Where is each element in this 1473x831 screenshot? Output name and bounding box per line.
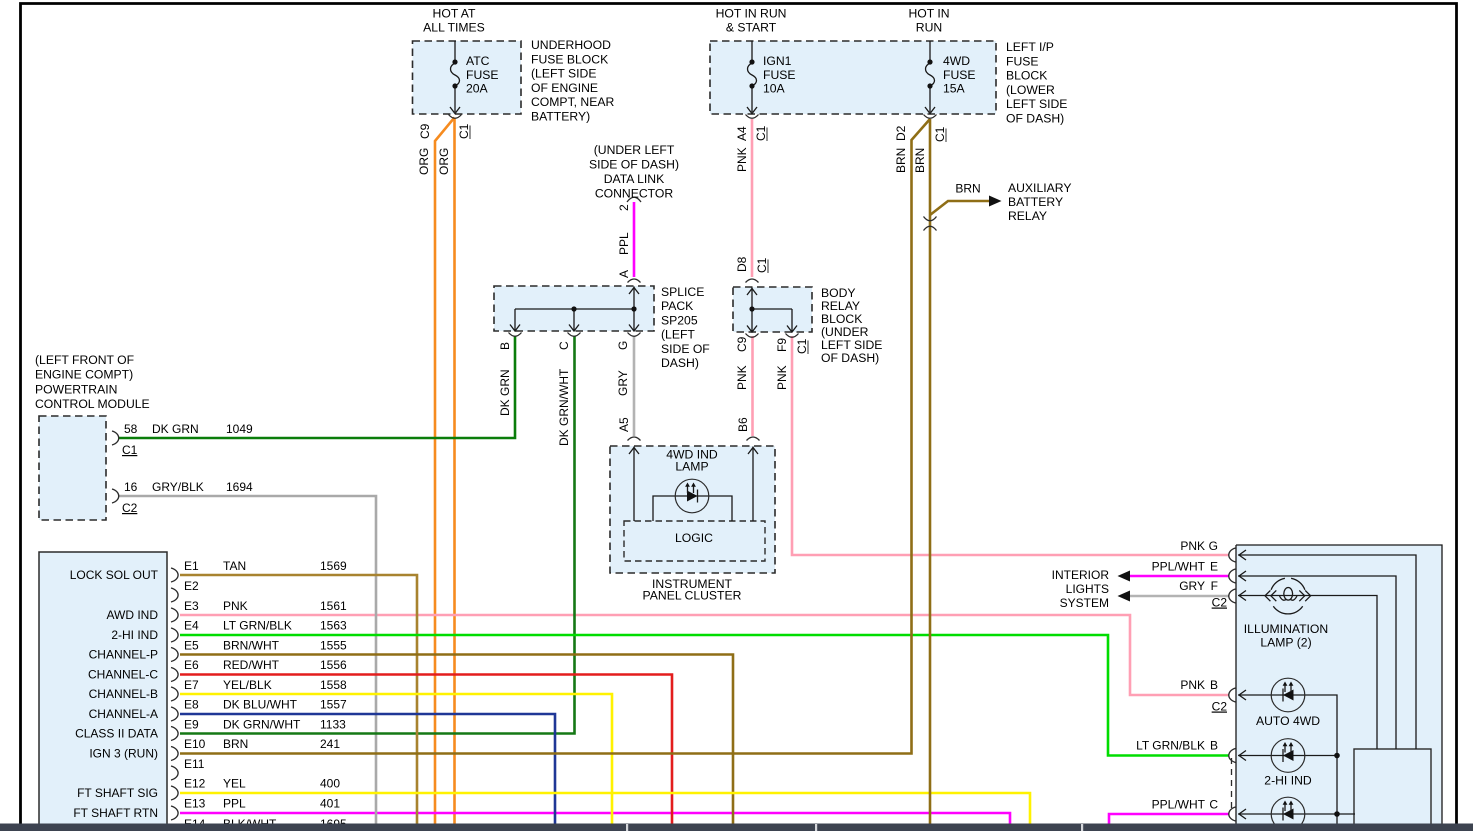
connector arc below IGN1 fuse xyxy=(746,115,759,119)
svg-text:C1: C1 xyxy=(754,125,768,141)
svg-text:E: E xyxy=(1210,560,1218,574)
svg-text:IGN 3 (RUN): IGN 3 (RUN) xyxy=(89,747,158,761)
svg-text:CLASS II DATA: CLASS II DATA xyxy=(75,727,158,741)
svg-text:CHANNEL-B: CHANNEL-B xyxy=(89,687,158,701)
svg-text:15A: 15A xyxy=(943,82,966,96)
svg-text:1556: 1556 xyxy=(320,658,347,672)
svg-text:CHANNEL-C: CHANNEL-C xyxy=(88,668,158,682)
wire BRN branch to auxiliary battery relay xyxy=(930,201,989,215)
svg-text:A: A xyxy=(617,270,631,278)
svg-text:ALL TIMES: ALL TIMES xyxy=(423,21,485,35)
splice pack SP205 xyxy=(494,286,654,331)
label auxiliary battery relay xyxy=(1008,181,1071,223)
label left I/P fuse block xyxy=(1006,40,1067,126)
svg-text:F: F xyxy=(1211,579,1218,593)
svg-text:E13: E13 xyxy=(184,797,206,811)
wire BRN D2 4WD fuse to E10 xyxy=(180,119,930,754)
wire DK GRN/WHT splice C to E9 xyxy=(180,336,575,734)
svg-text:58: 58 xyxy=(124,422,138,436)
svg-text:DK GRN: DK GRN xyxy=(152,422,199,436)
svg-text:LEFT I/P: LEFT I/P xyxy=(1006,40,1054,54)
svg-text:PPL/WHT: PPL/WHT xyxy=(1152,798,1206,812)
svg-text:C1: C1 xyxy=(795,338,809,354)
svg-text:E2: E2 xyxy=(184,579,199,593)
svg-text:CONNECTOR: CONNECTOR xyxy=(595,187,674,201)
svg-text:B: B xyxy=(1210,739,1218,753)
svg-text:(LEFT SIDE: (LEFT SIDE xyxy=(531,67,596,81)
svg-text:AUTO 4WD: AUTO 4WD xyxy=(1256,714,1320,728)
PCM E-connector box xyxy=(39,552,167,831)
svg-text:SP205: SP205 xyxy=(661,313,698,327)
svg-text:2-HI IND: 2-HI IND xyxy=(1264,774,1312,788)
svg-text:E7: E7 xyxy=(184,678,199,692)
svg-text:1558: 1558 xyxy=(320,678,347,692)
svg-text:1557: 1557 xyxy=(320,698,347,712)
left I/P fuse block xyxy=(710,41,996,114)
svg-text:C1: C1 xyxy=(933,126,947,142)
svg-text:D8: D8 xyxy=(735,256,749,272)
right module internal lines B / 2-HI / C and LED bus xyxy=(1238,690,1355,824)
svg-text:UNDERHOOD: UNDERHOOD xyxy=(531,38,611,52)
svg-text:401: 401 xyxy=(320,797,340,811)
powertrain control module box xyxy=(39,416,106,520)
svg-text:PNK: PNK xyxy=(775,365,789,390)
wire PPL/WHT pin E xyxy=(1130,575,1229,578)
svg-text:COMPT, NEAR: COMPT, NEAR xyxy=(531,95,614,109)
svg-text:DK BLU/WHT: DK BLU/WHT xyxy=(223,698,298,712)
svg-text:IGN1: IGN1 xyxy=(763,54,792,68)
svg-text:PNK: PNK xyxy=(1180,678,1205,692)
svg-text:BRN: BRN xyxy=(223,737,248,751)
E-connector left labels xyxy=(70,568,159,820)
E-connector pin rows xyxy=(184,559,347,831)
svg-text:CHANNEL-A: CHANNEL-A xyxy=(89,707,158,721)
svg-text:C: C xyxy=(1209,798,1218,812)
svg-text:BRN: BRN xyxy=(913,148,927,173)
fuse IGN1 10A xyxy=(747,41,757,114)
wire PNK C9 body relay to cluster B6 xyxy=(751,336,754,436)
svg-text:4WD: 4WD xyxy=(943,54,970,68)
cluster internal wiring xyxy=(629,447,758,522)
svg-text:YEL: YEL xyxy=(223,777,246,791)
svg-text:GRY: GRY xyxy=(1179,579,1205,593)
transfer case / right module box xyxy=(1232,545,1443,831)
svg-text:LT GRN/BLK: LT GRN/BLK xyxy=(1136,739,1205,753)
splice pack internal bus xyxy=(510,287,639,332)
pin 58 DK GRN 1049 xyxy=(122,422,253,457)
svg-text:16: 16 xyxy=(124,480,138,494)
wire PPL data link connector to splice A xyxy=(633,202,636,277)
svg-text:AWD IND: AWD IND xyxy=(106,608,158,622)
label body relay block xyxy=(821,286,882,365)
svg-text:(LOWER: (LOWER xyxy=(1006,83,1055,97)
svg-text:RUN: RUN xyxy=(916,21,942,35)
svg-text:SPLICE: SPLICE xyxy=(661,285,704,299)
interior lights system xyxy=(1052,568,1110,610)
label underhood fuse block xyxy=(531,38,614,124)
wire BRN C1 4WD fuse down xyxy=(929,119,932,824)
svg-text:1555: 1555 xyxy=(320,639,347,653)
svg-text:ORG: ORG xyxy=(437,148,451,175)
wire PPL E13 xyxy=(180,813,1010,824)
svg-text:BRN: BRN xyxy=(894,148,908,173)
svg-text:A5: A5 xyxy=(617,417,631,432)
4WD IND lamp LED xyxy=(675,479,709,513)
connector arc below ATC fuse xyxy=(449,115,462,119)
underhood fuse block xyxy=(413,41,522,114)
right module pin labels xyxy=(1136,539,1227,812)
solid arrow to auxiliary battery relay xyxy=(989,196,1002,207)
fuse ATC 20A xyxy=(450,41,460,114)
svg-text:SIDE OF: SIDE OF xyxy=(661,342,710,356)
wire YEL E12 xyxy=(180,793,1030,824)
svg-text:LIGHTS: LIGHTS xyxy=(1066,582,1109,596)
svg-text:(LEFT FRONT OF: (LEFT FRONT OF xyxy=(35,353,134,367)
wire ORG right branch C1 xyxy=(453,118,456,825)
svg-text:C9: C9 xyxy=(418,123,432,139)
pin 16 GRY/BLK 1694 xyxy=(122,480,253,515)
svg-text:FUSE: FUSE xyxy=(943,68,976,82)
svg-text:BRN/WHT: BRN/WHT xyxy=(223,639,280,653)
wire GRY splice G to cluster A5 xyxy=(633,336,636,436)
wire GRY pin F xyxy=(1130,595,1229,598)
svg-text:AUXILIARY: AUXILIARY xyxy=(1008,181,1071,195)
svg-text:C1: C1 xyxy=(457,123,471,139)
svg-text:E8: E8 xyxy=(184,698,199,712)
svg-text:E11: E11 xyxy=(184,757,205,771)
ROTATED LABELS xyxy=(417,123,947,446)
logic box xyxy=(624,521,765,561)
svg-text:B: B xyxy=(1210,678,1218,692)
svg-text:E6: E6 xyxy=(184,658,199,672)
inline connector break on BRN C1 wire xyxy=(924,217,937,231)
svg-text:GRY: GRY xyxy=(616,370,630,396)
svg-text:OF DASH): OF DASH) xyxy=(1006,112,1064,126)
svg-text:FUSE BLOCK: FUSE BLOCK xyxy=(531,52,608,66)
svg-text:B: B xyxy=(498,342,512,350)
svg-text:E5: E5 xyxy=(184,639,199,653)
svg-text:G: G xyxy=(1209,539,1218,553)
svg-text:HOT IN: HOT IN xyxy=(908,7,949,21)
svg-text:YEL/BLK: YEL/BLK xyxy=(223,678,272,692)
body relay exit arcs C9 F9 xyxy=(746,334,799,338)
svg-text:GRY/BLK: GRY/BLK xyxy=(152,480,204,494)
svg-text:E12: E12 xyxy=(184,777,206,791)
svg-text:E9: E9 xyxy=(184,718,199,732)
svg-text:SIDE OF DASH): SIDE OF DASH) xyxy=(589,158,679,172)
svg-text:1049: 1049 xyxy=(226,422,253,436)
svg-text:1569: 1569 xyxy=(320,559,347,573)
svg-text:POWERTRAIN: POWERTRAIN xyxy=(35,382,117,396)
wire DK BLU/WHT E8 xyxy=(180,714,555,824)
right module internal lines G E F xyxy=(1238,550,1416,749)
cluster entry arcs A5 B6 xyxy=(628,437,760,441)
svg-text:RED/WHT: RED/WHT xyxy=(223,658,280,672)
svg-text:INTERIOR: INTERIOR xyxy=(1052,568,1110,582)
svg-text:BLOCK: BLOCK xyxy=(1006,69,1047,83)
PCM pin arcs 58 C1 / 16 C2 xyxy=(112,431,119,503)
svg-text:20A: 20A xyxy=(466,82,489,96)
svg-text:BATTERY): BATTERY) xyxy=(531,110,590,124)
label data link connector xyxy=(589,143,679,201)
data link connector exit arc xyxy=(627,197,641,202)
svg-text:FUSE: FUSE xyxy=(763,68,796,82)
underlines for rotated C1 labels xyxy=(470,126,946,355)
svg-text:C: C xyxy=(557,341,571,350)
bottom LED on pin C row xyxy=(1271,797,1305,831)
svg-text:1694: 1694 xyxy=(226,480,253,494)
wire PNK F9 body relay to pin G xyxy=(792,336,1229,555)
svg-text:LAMP (2): LAMP (2) xyxy=(1260,636,1311,650)
AUTO 4WD LED xyxy=(1271,678,1305,712)
2-HI IND LED xyxy=(1271,739,1305,773)
svg-text:LOGIC: LOGIC xyxy=(675,531,713,545)
svg-text:B6: B6 xyxy=(736,417,750,432)
svg-text:FUSE: FUSE xyxy=(1006,54,1039,68)
svg-text:DATA LINK: DATA LINK xyxy=(604,172,665,186)
svg-text:FT SHAFT RTN: FT SHAFT RTN xyxy=(73,806,158,820)
svg-text:241: 241 xyxy=(320,737,340,751)
svg-text:LT GRN/BLK: LT GRN/BLK xyxy=(223,619,292,633)
svg-text:CONTROL MODULE: CONTROL MODULE xyxy=(35,397,150,411)
svg-text:E3: E3 xyxy=(184,599,199,613)
svg-text:(UNDER LEFT: (UNDER LEFT xyxy=(594,143,675,157)
label splice pack SP205 xyxy=(661,285,710,370)
svg-text:DK GRN: DK GRN xyxy=(498,369,512,416)
svg-text:E1: E1 xyxy=(184,559,199,573)
svg-text:FUSE: FUSE xyxy=(466,68,499,82)
instrument panel cluster box xyxy=(610,446,775,573)
svg-text:D2: D2 xyxy=(894,125,908,141)
illumination lamp symbol xyxy=(1265,578,1311,614)
svg-text:LOCK SOL OUT: LOCK SOL OUT xyxy=(70,568,159,582)
svg-text:ENGINE COMPT): ENGINE COMPT) xyxy=(35,368,133,382)
svg-text:C2: C2 xyxy=(1212,596,1228,610)
wire LT GRN/BLK E4 to pin B xyxy=(180,635,1229,756)
wire GRY/BLK PCM 16 xyxy=(119,496,376,824)
svg-text:1561: 1561 xyxy=(320,599,347,613)
body relay block xyxy=(733,287,812,332)
svg-text:TAN: TAN xyxy=(223,559,246,573)
svg-text:OF DASH): OF DASH) xyxy=(821,351,879,365)
wire DK GRN splice B to PCM 58 xyxy=(119,336,515,438)
wire PNK IGN1 fuse to body relay block xyxy=(751,119,754,277)
svg-text:HOT IN RUN: HOT IN RUN xyxy=(716,7,787,21)
svg-text:G: G xyxy=(616,341,630,350)
svg-text:RELAY: RELAY xyxy=(821,299,860,313)
right module pin arcs G E F B B C xyxy=(1229,548,1236,821)
svg-text:RELAY: RELAY xyxy=(1008,209,1047,223)
svg-text:CHANNEL-P: CHANNEL-P xyxy=(89,648,158,662)
svg-text:C1: C1 xyxy=(122,443,138,457)
svg-text:PANEL CLUSTER: PANEL CLUSTER xyxy=(643,589,742,603)
svg-text:400: 400 xyxy=(320,777,340,791)
fuse 4WD 15A xyxy=(925,41,935,114)
svg-text:A4: A4 xyxy=(735,126,749,141)
svg-text:10A: 10A xyxy=(763,82,786,96)
wire ORG left branch C9 xyxy=(435,118,455,825)
splice pack entry arc A xyxy=(628,279,641,283)
svg-text:ORG: ORG xyxy=(417,148,431,175)
svg-text:E10: E10 xyxy=(184,737,206,751)
label powertrain control module xyxy=(35,353,150,411)
svg-text:DK GRN/WHT: DK GRN/WHT xyxy=(223,718,301,732)
svg-text:PACK: PACK xyxy=(661,299,693,313)
svg-text:DK GRN/WHT: DK GRN/WHT xyxy=(557,368,571,446)
wire PNK E3 to pin B xyxy=(180,615,1229,695)
wire BRN/WHT E5 xyxy=(180,655,733,825)
inner sub-box of right module xyxy=(1354,749,1431,831)
svg-text:PNK: PNK xyxy=(1180,539,1205,553)
svg-text:1133: 1133 xyxy=(320,718,346,732)
svg-text:PPL/WHT: PPL/WHT xyxy=(1152,560,1206,574)
svg-text:1563: 1563 xyxy=(320,619,347,633)
svg-text:C1: C1 xyxy=(755,257,769,273)
wire TAN E1 xyxy=(180,575,417,824)
svg-text:BRN: BRN xyxy=(955,182,980,196)
svg-text:ATC: ATC xyxy=(466,54,490,68)
svg-text:C2: C2 xyxy=(122,501,138,515)
svg-text:PNK: PNK xyxy=(735,365,749,390)
svg-text:PNK: PNK xyxy=(735,147,749,172)
bottom bar xyxy=(0,824,1473,831)
svg-text:(UNDER: (UNDER xyxy=(821,325,869,339)
splice exit arcs B C G xyxy=(509,333,641,337)
svg-text:SYSTEM: SYSTEM xyxy=(1060,596,1109,610)
svg-text:C2: C2 xyxy=(1212,700,1228,714)
svg-text:LEFT SIDE: LEFT SIDE xyxy=(821,338,882,352)
E-connector pin arcs E1-E13 xyxy=(171,568,178,820)
body relay entry arc D8 xyxy=(746,279,759,283)
svg-text:2: 2 xyxy=(617,204,631,211)
svg-text:BATTERY: BATTERY xyxy=(1008,195,1063,209)
svg-text:PPL: PPL xyxy=(223,797,246,811)
svg-text:LAMP: LAMP xyxy=(675,460,708,474)
svg-text:LEFT SIDE: LEFT SIDE xyxy=(1006,97,1067,111)
svg-text:PPL: PPL xyxy=(617,232,631,255)
wire PPL/WHT pin C from bottom xyxy=(1109,814,1229,824)
svg-text:FT SHAFT SIG: FT SHAFT SIG xyxy=(77,786,158,800)
connector arc below 4WD fuse xyxy=(924,115,937,119)
svg-text:E4: E4 xyxy=(184,619,199,633)
svg-text:OF ENGINE: OF ENGINE xyxy=(531,81,598,95)
wire RED/WHT E6 xyxy=(180,675,672,825)
body relay internal wiring xyxy=(747,288,797,333)
svg-text:2-HI IND: 2-HI IND xyxy=(111,628,158,642)
interior lights system arrows xyxy=(1118,571,1131,602)
svg-text:C9: C9 xyxy=(735,336,749,352)
svg-text:ILLUMINATION: ILLUMINATION xyxy=(1244,622,1328,636)
svg-text:(LEFT: (LEFT xyxy=(661,328,695,342)
svg-text:& START: & START xyxy=(726,21,777,35)
svg-text:BODY: BODY xyxy=(821,286,856,300)
wire YEL/BLK E7 xyxy=(180,694,612,824)
svg-text:DASH): DASH) xyxy=(661,356,699,370)
svg-text:BLOCK: BLOCK xyxy=(821,312,862,326)
svg-text:HOT AT: HOT AT xyxy=(433,7,476,21)
svg-text:PNK: PNK xyxy=(223,599,248,613)
svg-text:F9: F9 xyxy=(775,338,789,352)
